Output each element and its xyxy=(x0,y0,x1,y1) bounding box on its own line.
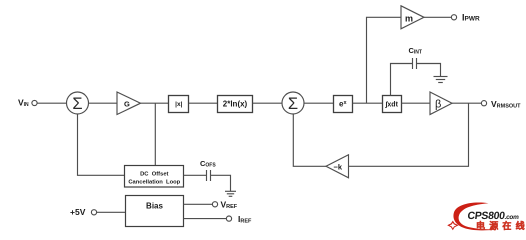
svg-text:VIN: VIN xyxy=(18,98,29,109)
svg-text:G: G xyxy=(124,99,130,108)
svg-text:+5V: +5V xyxy=(70,207,86,217)
svg-text:ex: ex xyxy=(339,100,347,109)
node VRMSOUT label xyxy=(491,99,521,110)
wire summer to G xyxy=(89,102,118,104)
wire integrator to beta xyxy=(402,102,431,104)
svg-text:∫xdt: ∫xdt xyxy=(384,102,398,109)
svg-text:CINT: CINT xyxy=(409,46,422,56)
svg-text:Cancellation Loop: Cancellation Loop xyxy=(128,180,180,186)
svg-text:IPWR: IPWR xyxy=(462,13,480,23)
wire m to IPWR terminal xyxy=(424,16,451,18)
log block 2*ln(x) xyxy=(218,96,253,113)
input terminal +5V xyxy=(91,210,96,215)
node IREF label xyxy=(238,214,252,225)
wire capacitor CINT to ground xyxy=(417,64,441,77)
wire integrator top to capacitor CINT xyxy=(391,64,413,96)
value label COFS xyxy=(200,159,216,169)
op-amp beta xyxy=(430,92,452,115)
wire tap to m amplifier xyxy=(367,17,402,103)
watermark C swoosh logo xyxy=(453,202,496,230)
ground (CINT) xyxy=(434,77,448,83)
wire -k to summer S2 xyxy=(293,114,326,166)
exp block e^x xyxy=(334,96,353,113)
svg-text:β: β xyxy=(435,99,441,111)
value label CINT xyxy=(409,46,422,56)
wire exp to integrator xyxy=(353,102,383,104)
wire +5V to Bias block xyxy=(97,211,126,213)
wire DC offset loop to capacitor COFS xyxy=(184,174,207,176)
output terminal IPWR xyxy=(451,15,456,20)
svg-text:Σ: Σ xyxy=(72,95,82,113)
svg-text:|x|: |x| xyxy=(175,101,182,108)
op-amp G xyxy=(117,92,141,115)
wire Bias to VREF terminal xyxy=(184,203,213,205)
capacitor C OFS xyxy=(207,170,211,181)
summing junction S1 xyxy=(67,92,89,114)
wire G to abs block xyxy=(141,102,169,104)
svg-text:Bias: Bias xyxy=(146,202,163,211)
svg-text:−k: −k xyxy=(334,162,343,171)
block DC Offset Cancellation Loop xyxy=(125,166,184,188)
wire log block to summer S2 xyxy=(253,102,283,104)
power label +5V xyxy=(70,207,86,217)
svg-text:DC Offset: DC Offset xyxy=(140,172,168,178)
input terminal VIN xyxy=(32,100,37,105)
summing junction S2 xyxy=(282,92,304,114)
op-amp m xyxy=(401,6,424,29)
wire abs to log block xyxy=(189,102,217,104)
output terminal IREF xyxy=(226,216,231,221)
svg-text:VRMSOUT: VRMSOUT xyxy=(491,99,521,110)
capacitor C INT xyxy=(413,58,417,69)
wire Bias to IREF terminal xyxy=(184,218,227,220)
output terminal VREF xyxy=(212,202,217,207)
op-amp -k xyxy=(326,155,349,178)
svg-text:2*ln(x): 2*ln(x) xyxy=(223,100,248,109)
wire tap after G down to DC offset loop input xyxy=(154,103,156,165)
svg-text:IREF: IREF xyxy=(238,214,252,225)
wire VIN to summer xyxy=(37,102,66,104)
svg-text:电源在线: 电源在线 xyxy=(476,220,526,231)
svg-text:VREF: VREF xyxy=(221,200,238,211)
node IPWR label xyxy=(462,13,480,23)
svg-text:m: m xyxy=(405,14,413,24)
wire feedback from output node down to -k xyxy=(349,103,469,166)
wire summer S1 down to DC offset loop output xyxy=(78,114,125,175)
svg-text:Σ: Σ xyxy=(288,95,298,113)
svg-text:COFS: COFS xyxy=(200,159,216,169)
node VREF label xyxy=(221,200,238,211)
wire summer S2 to exp block xyxy=(304,102,333,104)
ground (COFS) xyxy=(225,191,236,196)
wire capacitor COFS to ground xyxy=(211,175,231,191)
node VIN label xyxy=(18,98,29,109)
output terminal VRMSOUT xyxy=(481,101,486,106)
integrator block int x dt xyxy=(383,96,402,113)
watermark star xyxy=(447,221,458,231)
abs block |x| xyxy=(169,96,189,113)
block Bias xyxy=(126,196,184,227)
wire beta to output terminal xyxy=(452,102,481,104)
